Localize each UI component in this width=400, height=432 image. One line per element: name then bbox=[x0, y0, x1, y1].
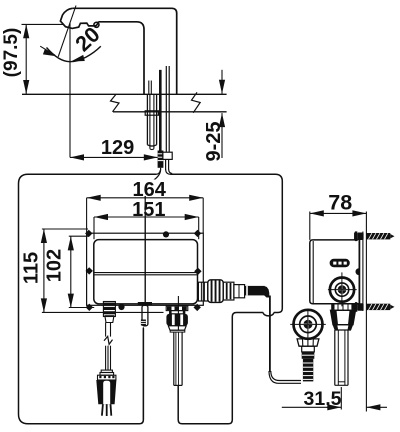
counter bottom line bbox=[113, 111, 227, 113]
faucet spout head bbox=[60, 8, 98, 28]
wall lines bbox=[359, 212, 366, 412]
threaded hose end bbox=[303, 359, 313, 382]
faucet inner profile bbox=[98, 22, 144, 95]
wall connector front view: circle bbox=[290, 309, 326, 341]
top mounting screw bbox=[355, 231, 395, 241]
big outline right section bbox=[171, 174, 283, 423]
115 dimension bbox=[21, 229, 164, 312]
svg-text:9-25: 9-25 bbox=[203, 121, 225, 161]
31.5 dimension bbox=[282, 387, 387, 410]
sensor cable (dark) in faucet bbox=[159, 70, 162, 155]
side pipe bbox=[335, 330, 348, 385]
control box mounting plate bbox=[87, 233, 204, 305]
outlet spacer bbox=[223, 282, 234, 300]
164 dimension bbox=[87, 179, 204, 233]
svg-text:31,5: 31,5 bbox=[304, 388, 342, 410]
faucet internal pipe lines above counter bbox=[149, 81, 152, 95]
cable connector bbox=[158, 151, 164, 168]
outlet rib flange on box right bbox=[198, 282, 207, 301]
black flex hose bbox=[244, 286, 269, 298]
9-25 dimension bbox=[203, 70, 225, 162]
svg-text:(97.5): (97.5) bbox=[1, 28, 22, 78]
svg-text:129: 129 bbox=[101, 137, 134, 159]
outlet big nut bbox=[208, 280, 223, 303]
cable gland at box bottom bbox=[138, 302, 152, 326]
control box side view bbox=[310, 233, 360, 312]
supply nut assembly below box bbox=[166, 306, 188, 332]
counter break zigzag bbox=[111, 92, 201, 113]
mid mounting screw bbox=[355, 302, 395, 312]
svg-text:78: 78 bbox=[328, 190, 352, 214]
svg-text:102: 102 bbox=[44, 249, 66, 282]
svg-text:115: 115 bbox=[21, 252, 43, 284]
cable below gland bbox=[142, 327, 144, 419]
shank washer bbox=[145, 111, 158, 115]
svg-text:151: 151 bbox=[132, 199, 165, 221]
side taper bbox=[333, 325, 352, 330]
power plug bbox=[96, 370, 116, 416]
faucet outer profile bbox=[72, 8, 176, 94]
LED window bbox=[330, 259, 350, 267]
supply tube bbox=[174, 332, 182, 385]
129 dimension bbox=[70, 137, 158, 161]
20 degree label bbox=[71, 17, 111, 57]
counter top line bbox=[22, 93, 227, 95]
side big nut bbox=[331, 310, 356, 324]
power cord bbox=[104, 323, 113, 371]
side fitting flange bbox=[332, 304, 354, 311]
side bump bbox=[356, 268, 359, 275]
control box front bbox=[94, 240, 198, 304]
spout vertical extension line bbox=[69, 23, 71, 157]
20 degree slant reference line bbox=[58, 6, 76, 57]
102 dimension bbox=[44, 236, 95, 307]
hose connection dot top bbox=[163, 231, 169, 237]
supply fitting center line bbox=[177, 296, 179, 330]
power cord gland bbox=[103, 302, 115, 323]
connector block bbox=[302, 346, 315, 359]
20 degree dimension arc bbox=[40, 46, 101, 62]
cable routed to control box bbox=[145, 168, 160, 306]
svg-text:164: 164 bbox=[133, 179, 167, 201]
78 dimension bbox=[310, 190, 367, 240]
big outline left section bbox=[19, 170, 161, 424]
outlet adapter bbox=[234, 285, 245, 298]
threaded shank below counter bbox=[147, 94, 156, 149]
cable line across box bbox=[144, 196, 146, 306]
151 dimension bbox=[94, 199, 199, 239]
supply hose from faucet bbox=[163, 66, 172, 174]
(97.5) dimension bbox=[1, 24, 64, 94]
hose down leg bbox=[269, 296, 301, 384]
plate screws (diamonds) bbox=[85, 230, 202, 311]
connection dot bottom bbox=[118, 304, 124, 310]
valve circle side view bbox=[328, 272, 357, 306]
connector nut bbox=[297, 339, 319, 346]
